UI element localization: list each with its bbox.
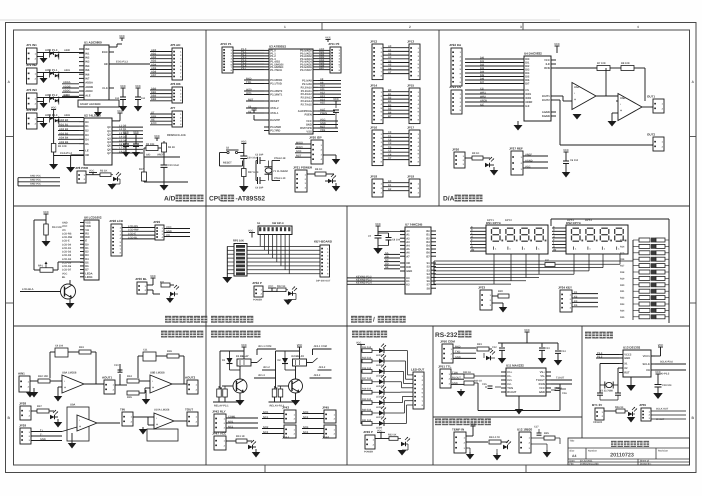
wire bus JP16-JP17 [383, 131, 409, 160]
svg-text:A3: A3 [406, 241, 410, 244]
svg-text:VCC: VCC [470, 423, 476, 426]
ground U13 [630, 377, 632, 385]
display DS1 4-digit [486, 221, 548, 254]
wire bus to JP7 [150, 111, 172, 125]
svg-text:U8B LM358: U8B LM358 [150, 372, 165, 375]
wire JP30 wiring [147, 284, 153, 286]
svg-text:IOUT1: IOUT1 [542, 95, 550, 98]
connector JP33 key [478, 286, 492, 311]
wire dip drops staircase [260, 235, 289, 274]
svg-text:A5: A5 [406, 248, 410, 251]
connector J5 P1 [220, 42, 233, 73]
capacitor C1 [115, 91, 126, 104]
connector BT1 battery [592, 403, 604, 420]
svg-text:S6: S6 [427, 280, 431, 283]
svg-text:VSS: VSS [85, 222, 91, 225]
svg-text:VCC: VCC [563, 149, 569, 152]
svg-text:OUT1: OUT1 [647, 95, 655, 99]
svg-text:AD7: AD7 [151, 74, 157, 77]
svg-text:VCC: VCC [150, 275, 156, 278]
svg-text:NO2: NO2 [263, 426, 269, 429]
svg-text:P0.7/AD7: P0.7/AD7 [300, 69, 312, 72]
svg-text:WR1: WR1 [525, 93, 531, 96]
wire bus right of U2 [117, 125, 143, 154]
svg-text:U1 ADC0809: U1 ADC0809 [84, 41, 102, 45]
wire R29 to IC [474, 375, 506, 377]
wire base bottom R2 [269, 401, 296, 403]
led row 1 [361, 344, 386, 357]
wire J3 out [37, 97, 62, 99]
connector JP22 data in [449, 43, 462, 86]
svg-text:JP45: JP45 [322, 406, 329, 410]
svg-text:B1: B1 [426, 234, 430, 237]
svg-text:JP18: JP18 [370, 175, 377, 179]
ground J3 [40, 103, 48, 108]
svg-text:VCC: VCC [655, 371, 661, 374]
svg-text:GND: GND [452, 382, 458, 385]
svg-text:AD6: AD6 [151, 71, 157, 74]
svg-text:K1 RELAY: K1 RELAY [236, 355, 249, 358]
svg-text:RFB: RFB [544, 67, 550, 70]
connector JP23 ctrl [449, 85, 462, 114]
title block v line revision [655, 448, 657, 459]
wire SCLK out [655, 363, 686, 365]
svg-text:RW: RW [85, 236, 90, 239]
svg-text:R2 1K: R2 1K [100, 170, 107, 173]
svg-text:D5: D5 [85, 143, 89, 146]
svg-text:Q4: Q4 [107, 141, 111, 144]
ground Q1 [66, 303, 75, 309]
svg-text:BT1 3V: BT1 3V [592, 403, 602, 407]
led LED4 [170, 285, 179, 296]
svg-text:B6: B6 [426, 252, 430, 255]
svg-text:+: + [620, 109, 622, 113]
wire EA [254, 119, 264, 121]
svg-text:dp: dp [553, 249, 557, 252]
svg-text:PSEN: PSEN [304, 114, 311, 117]
wire AIN1 to IC bus [62, 72, 84, 74]
wire contact stub 3 [254, 377, 276, 379]
svg-text:AD3: AD3 [151, 60, 157, 63]
zone tick top 1 [321, 23, 323, 31]
svg-text:1: 1 [284, 25, 286, 29]
svg-text:SCLK: SCLK [642, 363, 649, 366]
svg-text:K4: K4 [574, 304, 578, 307]
svg-text:Size: Size [570, 450, 575, 453]
svg-text:R32 10K: R32 10K [38, 375, 48, 378]
svg-text:LCD-BL: LCD-BL [128, 236, 138, 239]
svg-text:Q2: Q2 [107, 134, 111, 137]
svg-text:A2: A2 [388, 53, 392, 56]
svg-text:R20: R20 [620, 284, 625, 287]
svg-text:JP49 P: JP49 P [363, 430, 373, 434]
op-amp U9A [77, 415, 97, 431]
svg-text:AIN1: AIN1 [18, 372, 25, 376]
wire bus ISP [295, 141, 311, 157]
svg-text:VO: VO [62, 229, 66, 232]
svg-text:U3 AT89S52: U3 AT89S52 [269, 45, 286, 49]
ground R14 [42, 241, 51, 247]
unit label 信号转换单元 [161, 331, 203, 338]
svg-text:JP42 RLY: JP42 RLY [212, 410, 226, 414]
svg-text:R1 10K: R1 10K [58, 145, 67, 148]
svg-text:VCC: VCC [51, 107, 57, 110]
dip switch S1 [257, 222, 292, 235]
svg-text:IN5: IN5 [85, 69, 90, 72]
svg-text:JP44: JP44 [282, 436, 289, 440]
svg-text:BL: BL [62, 276, 66, 279]
svg-text:VCC: VCC [117, 110, 123, 113]
wire U4 iout2 to opamp1 [556, 99, 560, 101]
svg-text:GND: GND [455, 356, 461, 359]
svg-text:A1: A1 [388, 49, 392, 52]
IC U6 LCD1602 [80, 216, 102, 281]
svg-text:XTAL2: XTAL2 [270, 107, 279, 110]
svg-text:T1IN: T1IN [452, 371, 458, 374]
wire relay left loop [275, 351, 277, 388]
wire stub labels DS1 [470, 225, 486, 251]
connector JP27 ref [509, 147, 523, 176]
connector JP24 out1 [647, 95, 664, 114]
wire ALE PSEN stubs [318, 108, 335, 115]
wire LED1 down [119, 179, 121, 184]
wire collector Q2 [295, 370, 297, 379]
svg-text:K1: K1 [574, 291, 578, 294]
led row 8 [361, 416, 386, 429]
IC U1 pedestal [78, 100, 119, 107]
wire bus left of U2 [58, 119, 79, 144]
led row 7 [361, 406, 386, 419]
svg-text:D0: D0 [85, 121, 89, 124]
wire rows left mid U3 [244, 77, 264, 84]
svg-text:B7: B7 [426, 255, 430, 258]
svg-text:T-: T- [40, 433, 42, 436]
vcc JP32 [268, 285, 276, 291]
svg-text:SCLK OUT: SCLK OUT [656, 408, 669, 411]
svg-text:GND VCC: GND VCC [30, 183, 41, 186]
svg-text:D4: D4 [85, 258, 89, 261]
capacitor C19 [161, 157, 180, 182]
svg-text:LCD-D1: LCD-D1 [62, 247, 72, 250]
svg-text:JP14: JP14 [370, 84, 377, 88]
wire bus JP45 [302, 411, 324, 419]
wire bus left U13 [596, 352, 619, 359]
svg-text:AD2 B2: AD2 B2 [59, 128, 69, 131]
svg-text:RS: RS [85, 232, 89, 235]
ground Q2 [295, 393, 297, 400]
svg-text:C1+: C1+ [507, 371, 512, 374]
svg-text:IN3: IN3 [85, 61, 90, 64]
svg-text:AGND: AGND [525, 159, 533, 162]
ground LED5 [284, 300, 293, 306]
svg-text:RP2 10K: RP2 10K [233, 240, 244, 243]
wire vref rail [144, 156, 180, 158]
svg-text:ADDC: ADDC [63, 90, 71, 93]
capacitor C22 [615, 393, 621, 400]
wire relay top rail [276, 350, 300, 352]
svg-text:VO: VO [85, 229, 89, 232]
svg-text:JP23 CS: JP23 CS [449, 85, 461, 89]
svg-text:C3: C3 [388, 142, 392, 145]
svg-text:CR1220: CR1220 [593, 421, 603, 424]
svg-text:R1OUT: R1OUT [507, 391, 516, 394]
resistor R2b base [278, 386, 283, 397]
svg-text:VCC: VCC [251, 107, 257, 110]
title block name 单片机开发板 [611, 441, 649, 447]
resistor R11 [161, 283, 170, 287]
zone tick bottom 1 [264, 465, 266, 473]
svg-text:LCD-D4: LCD-D4 [62, 258, 72, 261]
ground C6 [562, 169, 571, 178]
ground LED8 [398, 450, 407, 456]
svg-text:LCD-RW: LCD-RW [128, 229, 139, 232]
svg-text:JP21 POWER: JP21 POWER [293, 166, 313, 170]
svg-text:ALE: ALE [85, 94, 91, 97]
svg-text:R25: R25 [544, 432, 549, 435]
wire JP40 to U10 [133, 416, 154, 418]
svg-text:AD0: AD0 [151, 49, 157, 52]
ground C2 [134, 104, 143, 112]
svg-text:P3.3/INT1: P3.3/INT1 [270, 94, 283, 97]
svg-text:C7: C7 [388, 157, 392, 160]
svg-text:R31: R31 [545, 259, 550, 262]
resistor R8 10K [621, 66, 634, 71]
net label CLK [54, 155, 84, 157]
svg-text:DB1: DB1 [151, 91, 157, 94]
wire C15 leads [485, 386, 487, 388]
svg-text:D1: D1 [85, 247, 89, 250]
title block row line 3 [568, 461, 690, 463]
wire U11 right outputs [551, 379, 572, 381]
wire xtal gnd rail [600, 399, 618, 401]
svg-text:GND VCC: GND VCC [30, 174, 41, 177]
ground LED6 [54, 419, 63, 428]
svg-text:VSS: VSS [306, 131, 312, 134]
clamp diodes D7 D8 [49, 115, 58, 125]
svg-text:GND: GND [40, 438, 46, 441]
svg-text:IN2: IN2 [85, 57, 90, 60]
svg-text:NO4: NO4 [303, 426, 309, 429]
svg-text:+: + [79, 425, 81, 429]
svg-text:JP34 KEY: JP34 KEY [558, 286, 572, 290]
svg-text:NO1: NO1 [228, 420, 234, 423]
svg-text:B3: B3 [426, 241, 430, 244]
wire bus right of U3 P2 [318, 78, 341, 105]
svg-text:DGND: DGND [542, 115, 550, 118]
svg-text:T1IN: T1IN [507, 387, 513, 390]
wire led comb [384, 351, 413, 424]
svg-text:C17: C17 [534, 426, 539, 429]
capacitor C6 [563, 156, 579, 169]
svg-text:R29 1K: R29 1K [463, 371, 471, 374]
svg-text:X1: X1 [624, 363, 628, 366]
svg-text:CS: CS [525, 89, 529, 92]
wire contact stub 1 [313, 348, 332, 350]
connector JP52 temp [452, 428, 466, 454]
ground ISP [332, 155, 341, 165]
svg-text:R25: R25 [620, 316, 625, 319]
svg-text:D7: D7 [85, 269, 89, 272]
svg-text:VCC: VCC [544, 59, 550, 62]
svg-text:LCD-D0: LCD-D0 [62, 243, 72, 246]
title block frame [568, 438, 690, 465]
svg-text:TIN: TIN [120, 408, 125, 412]
svg-text:B7: B7 [388, 115, 392, 118]
svg-text:NC2: NC2 [263, 431, 269, 434]
svg-text:JP39: JP39 [19, 424, 26, 428]
svg-text:R22: R22 [620, 297, 625, 300]
wire IO out [655, 369, 686, 371]
connector JP34 key2 [558, 286, 572, 313]
svg-text:R21 510: R21 510 [362, 419, 372, 422]
svg-text:GND: GND [62, 222, 68, 225]
svg-text:104: 104 [115, 97, 120, 100]
connector JP39 [19, 424, 31, 445]
svg-text:JP6 DB: JP6 DB [170, 82, 181, 86]
svg-text:XFER: XFER [480, 99, 487, 102]
svg-text:LCD-BLA: LCD-BLA [22, 288, 34, 291]
svg-text:GND VCC: GND VCC [30, 178, 41, 181]
connector JP38 [19, 402, 31, 421]
connector JP30 [135, 277, 147, 294]
divider col A/D|CPU x=206 [205, 30, 207, 465]
led row 3 [361, 364, 386, 377]
svg-text:D0: D0 [85, 243, 89, 246]
wire seg rail [377, 230, 379, 236]
svg-text:4: 4 [637, 25, 639, 29]
resistor R35 [127, 391, 139, 395]
svg-text:C1: C1 [388, 135, 392, 138]
svg-text:AOUT1: AOUT1 [102, 376, 112, 380]
wire bus JP42 [226, 415, 258, 428]
svg-text:DPY1: DPY1 [487, 219, 494, 222]
svg-text:RST: RST [248, 98, 254, 101]
svg-text:JP30 BL: JP30 BL [135, 277, 147, 281]
svg-text:D5: D5 [85, 261, 89, 264]
divider col dip|seg x=347 [346, 206, 348, 465]
svg-text:JP3 IN3: JP3 IN3 [26, 88, 37, 92]
wire RP2 left bus [227, 246, 234, 277]
svg-text:JP33: JP33 [478, 286, 485, 290]
svg-text:WR2: WR2 [525, 97, 531, 100]
svg-text:-AT89S52: -AT89S52 [235, 196, 265, 203]
svg-text:LED-OUT: LED-OUT [411, 367, 424, 371]
wire R25 leads [531, 437, 544, 439]
wire EOC right of U1 [109, 63, 150, 65]
svg-text:ADDA: ADDA [63, 81, 71, 84]
svg-text:R21: R21 [620, 290, 625, 293]
svg-text:JK2-3: JK2-3 [314, 374, 321, 377]
ground U2 OE [66, 167, 75, 173]
resistor R23 [477, 347, 489, 351]
resistor R12 [277, 288, 286, 292]
vcc relay K2 [297, 344, 303, 351]
svg-text:Y1 11.0592M: Y1 11.0592M [273, 170, 288, 173]
wire AIN2 to IC bus [62, 97, 84, 99]
svg-text:XTAL1: XTAL1 [270, 112, 279, 115]
svg-text:S7: S7 [427, 284, 431, 287]
wire bus JP28 to JP29 [122, 225, 155, 239]
svg-text:SD: SD [385, 263, 389, 266]
unit label A/D转换单元 [164, 195, 203, 203]
wire bus JP34 [572, 291, 598, 307]
svg-text:JP50 COM: JP50 COM [440, 340, 455, 344]
svg-text:JK2-2: JK2-2 [319, 366, 326, 369]
svg-text:C12: C12 [492, 346, 497, 349]
capacitor C3 30P [255, 154, 266, 165]
vcc JP8 [89, 170, 97, 175]
wire out2 long [562, 101, 564, 145]
svg-text:R9 1K: R9 1K [472, 152, 479, 155]
svg-text:VCC1: VCC1 [643, 355, 651, 358]
ground LED3 [490, 167, 499, 176]
wire relay top rail [220, 350, 244, 352]
svg-text:OE: OE [104, 63, 108, 66]
svg-text:C8 104: C8 104 [392, 239, 401, 242]
svg-text:RELAY-P2.1: RELAY-P2.1 [214, 405, 229, 408]
svg-text:JP32 P: JP32 P [252, 281, 262, 285]
svg-text:LCD-RS: LCD-RS [128, 225, 138, 228]
connector JP55 clk out [639, 403, 651, 421]
svg-text:R37: R37 [37, 405, 42, 408]
svg-text:VCC: VCC [123, 131, 129, 134]
svg-text:VO: VO [166, 234, 170, 237]
resistor network RN1 [620, 238, 669, 320]
wire J4 out [37, 117, 62, 119]
unit label RS-232单元 [435, 331, 471, 339]
wire contact stub 1 [257, 348, 276, 350]
svg-text:JP55: JP55 [639, 403, 646, 407]
zone tick left 2 [6, 302, 14, 304]
svg-text:JP29: JP29 [153, 220, 160, 224]
wire contact stub 3 [310, 377, 332, 379]
net label XTAL1 [272, 180, 280, 182]
svg-text:AD5 B5: AD5 B5 [59, 141, 69, 144]
svg-text:A3: A3 [388, 56, 392, 59]
svg-text:C13: C13 [545, 347, 550, 350]
wire bus JP22 to U4 [465, 56, 524, 84]
wire bus JP39 [31, 429, 62, 441]
wire bus JP12-JP13 [383, 45, 409, 74]
svg-text:DPY2: DPY2 [505, 219, 512, 222]
svg-text:dp: dp [471, 249, 475, 252]
op-amp U8B [150, 375, 172, 393]
svg-text:AIN0 P1.0: AIN0 P1.0 [45, 49, 58, 52]
svg-text:C15: C15 [482, 383, 487, 386]
svg-text:L1 Q0: L1 Q0 [119, 125, 127, 128]
svg-text:VCC: VCC [133, 131, 139, 134]
svg-text:B2: B2 [388, 97, 392, 100]
led LED10 [625, 407, 637, 416]
connector JP31 dip out [314, 240, 333, 277]
wire crystal left rail [255, 161, 257, 181]
capacitor C10 [114, 364, 123, 372]
wire seg group outline top [551, 218, 669, 220]
op-amp U10A [154, 413, 174, 429]
svg-text:K2: K2 [574, 295, 578, 298]
svg-text:S1: S1 [427, 262, 431, 265]
wire U10 out [174, 420, 188, 422]
svg-text:Drawn By:: Drawn By: [640, 463, 652, 466]
svg-text:R22 1K: R22 1K [388, 434, 397, 437]
op-amp U5B LM358 [618, 94, 642, 121]
wire JP49 to R22 [375, 438, 389, 440]
svg-text:Number: Number [588, 450, 597, 453]
vcc C2 [135, 85, 141, 91]
svg-text:U11 MAX232: U11 MAX232 [506, 364, 524, 368]
unit label 数码管/键盘单元 [351, 316, 406, 324]
connector JP45a [322, 406, 336, 424]
